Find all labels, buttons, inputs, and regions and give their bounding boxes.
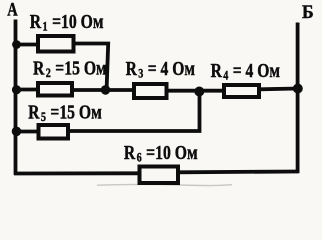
wire R2 tap	[14, 88, 38, 92]
svg-text:= 4 Ом: = 4 Ом	[148, 57, 195, 79]
wire R4 to right rail	[259, 87, 298, 92]
svg-text:R: R	[124, 141, 136, 163]
svg-text:=10 Ом: =10 Ом	[52, 10, 103, 32]
resistor R3	[134, 84, 167, 98]
wire R1 output to down-drop	[75, 44, 109, 90]
node dot D6	[293, 84, 303, 94]
wire left rail A	[14, 20, 18, 175]
resistor R2	[38, 83, 72, 96]
wire bottom right to R6	[178, 170, 298, 175]
node dot D2	[12, 85, 21, 94]
svg-text:=15 Ом: =15 Ом	[50, 101, 101, 123]
svg-text:= 4 Ом: = 4 Ом	[233, 59, 280, 81]
svg-text:R: R	[211, 59, 223, 81]
svg-text:R: R	[30, 10, 42, 32]
label R3 = 4 Om	[126, 57, 195, 81]
node B label	[302, 2, 314, 23]
wire R5 output riser to R3-R4 node	[68, 92, 200, 132]
label R5 = 15 Om	[28, 101, 102, 125]
wire R1 tap	[14, 43, 38, 47]
svg-text:Б: Б	[302, 2, 314, 23]
node dot D5	[194, 87, 204, 97]
label R6 = 10 Om	[124, 141, 198, 165]
node dot D3	[12, 127, 22, 137]
svg-text:=10 Ом: =10 Ом	[146, 141, 197, 163]
label R4 = 4 Om	[211, 59, 280, 83]
wire R2 to R3	[73, 88, 135, 92]
wire bottom left to R6	[14, 171, 140, 175]
wire right rail B	[296, 23, 298, 172]
resistor R1	[38, 36, 74, 52]
resistor R4	[224, 85, 259, 97]
svg-text:1: 1	[43, 19, 48, 33]
svg-text:5: 5	[41, 110, 46, 124]
svg-text:6: 6	[137, 150, 142, 164]
svg-text:R: R	[28, 101, 40, 123]
svg-text:3: 3	[138, 66, 143, 80]
wire R3 to R4	[166, 89, 225, 93]
resistor R6	[140, 167, 179, 184]
node A label	[7, 0, 17, 20]
wire R5 tap	[14, 130, 40, 134]
node dot D1	[12, 40, 21, 49]
faint scan smudge	[97, 184, 232, 185]
svg-text:R: R	[33, 57, 45, 79]
node dot D4	[101, 85, 111, 95]
svg-text:А: А	[7, 0, 17, 20]
label R1 = 10 Om	[30, 10, 104, 34]
label R2 = 15 Om	[33, 57, 107, 81]
svg-text:2: 2	[46, 66, 51, 80]
resistor R5	[39, 125, 69, 139]
svg-text:4: 4	[223, 68, 228, 82]
svg-text:=15 Ом: =15 Ом	[55, 57, 106, 79]
svg-text:R: R	[126, 57, 138, 79]
